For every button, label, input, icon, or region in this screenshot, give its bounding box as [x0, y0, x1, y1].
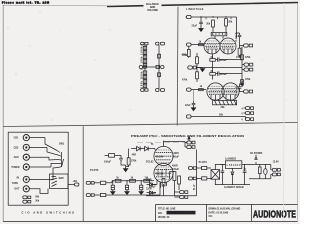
divider vertical linestage [176, 7, 179, 126]
svg-text:4: 4 [241, 108, 243, 111]
diode D-PSU1 [131, 146, 144, 150]
svg-text:61C3N: 61C3N [156, 172, 164, 175]
labels +400 450R [146, 152, 179, 171]
connector stack PWR2 [243, 112, 253, 115]
svg-text:22uF: 22uF [185, 104, 191, 107]
svg-text:470k: 470k [245, 78, 251, 81]
svg-text:4: 4 [241, 119, 243, 122]
tube V2a [207, 83, 224, 100]
wire 220uF B to rail [224, 73, 242, 75]
connector GND2 [23, 200, 31, 203]
connector F1a [188, 167, 201, 170]
svg-text:CK:: CK: [209, 215, 213, 218]
mid: jack GND-L [188, 66, 203, 69]
mid: resistor 3k B [210, 70, 216, 75]
mid: resistor 470k L1 [182, 53, 198, 68]
resistor 470k out A [236, 46, 242, 59]
wire 220uF A to rail [224, 59, 242, 61]
connector stack PWR3 [245, 118, 253, 121]
connector +B1 [73, 180, 79, 186]
svg-text:P1 RTX: P1 RTX [199, 161, 208, 164]
svg-text:0.47uF: 0.47uF [235, 32, 238, 42]
connector J3 bottom-left [141, 89, 148, 92]
resistor RV1e [143, 63, 146, 66]
rail: output jack OUT-M1 [242, 63, 253, 66]
tube V3b rectifier [154, 163, 173, 182]
branch 100uF 270k [104, 154, 126, 165]
border bottom [3, 221, 297, 223]
svg-text:100uF: 100uF [104, 161, 111, 164]
mid: capacitor 220uF A [216, 58, 227, 62]
svg-text:OUT: OUT [14, 187, 20, 190]
svg-text:22uF: 22uF [192, 25, 198, 28]
bottom jack IN-D [187, 115, 192, 118]
connector J1 top-left [141, 42, 148, 45]
svg-text:ISSUE: 03: ISSUE: 03 [158, 216, 170, 219]
text TITLE [158, 208, 196, 220]
svg-text:ECL82: ECL82 [146, 160, 154, 163]
box outline [8, 132, 68, 205]
capacitor F-C2 [243, 164, 247, 184]
ground A [199, 29, 203, 32]
svg-text:PREAMP PSU - SMOOTHING AND FIL: PREAMP PSU - SMOOTHING AND FILAMENT REGU… [131, 134, 244, 138]
fuse box F2b [202, 177, 211, 180]
resistor 10k PSU [144, 176, 150, 182]
switch SW1 contacts [57, 151, 64, 168]
tube type box ECC82 [211, 26, 227, 39]
mid wire across [197, 67, 242, 69]
svg-text:+B1: +B1 [73, 180, 78, 183]
svg-text:M8/M1LINE: M8/M1LINE [168, 212, 181, 215]
svg-text:100k 1: 100k 1 [140, 43, 143, 54]
svg-text:TITLE: M1 LINE: TITLE: M1 LINE [158, 208, 176, 211]
rail: output jack OUT-M2 [242, 68, 253, 71]
capacitor C-PSU3 [139, 180, 143, 194]
svg-text:110R: 110R [146, 179, 152, 182]
border right [297, 3, 299, 222]
svg-text:100k 1: 100k 1 [140, 53, 143, 64]
svg-text:2u: 2u [243, 167, 246, 170]
jack CD1 [14, 135, 45, 141]
middle junction dots [144, 66, 160, 68]
crease smudge [137, 141, 190, 143]
rail right vertical [241, 47, 243, 88]
svg-text:IN: IN [17, 176, 20, 179]
input jack IN-A [186, 15, 192, 18]
resistor 470k input A [182, 46, 191, 58]
input jack IN-B [187, 43, 205, 46]
svg-text:LINESTAGE: LINESTAGE [186, 8, 204, 11]
jack TAPE OUT [14, 186, 44, 194]
resistor RV1c [143, 55, 146, 59]
svg-text:1x1N5822: 1x1N5822 [225, 157, 237, 160]
rail: resistor 470k R1 [241, 55, 251, 60]
diode F-D2 under box [231, 168, 234, 184]
switch SW1 wires [45, 138, 58, 180]
resistor RV2a on right chain [158, 54, 161, 58]
diode D1 top [250, 152, 263, 165]
svg-text:470k: 470k [245, 56, 251, 59]
resistor 2k PSU [130, 176, 136, 182]
svg-text:CD2: CD2 [14, 146, 19, 149]
svg-text:110R: 110R [146, 188, 152, 191]
B+ up arrow PSU [188, 136, 190, 141]
connector P1a [86, 181, 100, 184]
capacitor C-PSU2 [125, 180, 129, 194]
connector stack PWR1 [243, 107, 253, 110]
mid: capacitor 220uF B [216, 72, 227, 76]
svg-text:2k: 2k [131, 176, 134, 179]
resistor RV2b on right chain [158, 73, 161, 77]
pot label SW 20k [35, 196, 40, 203]
fuse box a [100, 181, 112, 185]
border top-left faint [3, 4, 108, 7]
svg-text:Please mark tol. VR. ±2%: Please mark tol. VR. ±2% [2, 1, 50, 4]
svg-text:D1 BYW80: D1 BYW80 [250, 152, 263, 155]
wire left chain [145, 45, 159, 89]
svg-text:TUNER: TUNER [11, 166, 20, 169]
svg-text:100uF: 100uF [172, 156, 179, 159]
svg-text:T4: T4 [151, 143, 154, 146]
scan noise dots [8, 12, 287, 196]
resistor F-R1 [259, 164, 262, 178]
svg-text:470k: 470k [236, 56, 242, 59]
output jack OUT-B [244, 90, 253, 93]
svg-text:40R: 40R [132, 154, 137, 157]
capacitor 0.47uF out B [235, 84, 243, 96]
jack TAPE IN [17, 176, 53, 182]
svg-text:AUDIONOTE: AUDIONOTE [253, 210, 296, 221]
connector P1b [86, 194, 100, 197]
mid: ground symbol [200, 69, 204, 72]
connector GND1 [23, 196, 31, 199]
svg-text:20k: 20k [221, 106, 226, 109]
svg-text:B +V: B +V [242, 80, 245, 86]
wire tube top to connectors [164, 141, 186, 147]
middle wire [146, 66, 157, 68]
svg-text:CD1: CD1 [14, 137, 19, 140]
diode D-PSU2 [145, 143, 155, 151]
wire 3k B to bus [212, 68, 214, 80]
connector PSU-out2 [174, 196, 187, 199]
tube V1b [220, 38, 236, 54]
svg-text:100uF: 100uF [172, 168, 179, 171]
title BALANCE AND VOLUME [144, 2, 162, 12]
connector OUT12b [271, 173, 281, 176]
output jack OUT-A [244, 44, 253, 47]
tube V2b [222, 83, 239, 100]
svg-text:ECC82: ECC82 [212, 33, 227, 36]
svg-text:C/O AND SWITCHING: C/O AND SWITCHING [22, 211, 75, 215]
svg-text:1k: 1k [200, 85, 203, 88]
border top-right dark [107, 3, 298, 7]
svg-text:DATE: 01 06 1995: DATE: 01 06 1995 [209, 211, 229, 214]
svg-text:20k: 20k [219, 113, 224, 116]
svg-text:TAPE: TAPE [12, 182, 19, 185]
svg-text:20k: 20k [206, 23, 211, 26]
svg-text:20k: 20k [228, 21, 233, 24]
capacitor 0.47uF out A [235, 32, 243, 46]
pin numbers 4 [241, 108, 243, 122]
svg-text:61C3N: 61C3N [156, 155, 164, 158]
text DRWN [209, 208, 241, 219]
svg-text:470k: 470k [182, 54, 188, 57]
capacitor F-C3 [264, 164, 267, 178]
bottom bus wire [191, 117, 245, 120]
jack CD2 [14, 144, 47, 150]
connector J2 top-right [156, 42, 165, 45]
regulator L7812CV box [220, 161, 256, 169]
divider horizontal mid [3, 123, 297, 127]
svg-text:270k: 270k [131, 159, 137, 162]
svg-text:470k: 470k [182, 79, 188, 82]
middle row: connector J5 left [139, 66, 146, 69]
jack AUX [14, 154, 49, 160]
connector B2b [185, 146, 195, 149]
heater box lower [213, 100, 237, 109]
svg-text:AUX: AUX [14, 156, 19, 159]
resistor RV1h [143, 80, 146, 84]
svg-text:100k 1: 100k 1 [140, 77, 143, 88]
rail: resistor 470k R2 [241, 78, 251, 84]
svg-text:SW2: SW2 [59, 177, 65, 180]
fuse box F2a [202, 166, 211, 169]
value labels left chain top [140, 43, 143, 64]
svg-text:SW: SW [35, 196, 40, 199]
resistor 270k [126, 149, 137, 167]
svg-text:20k: 20k [35, 199, 40, 202]
junction dots top bus [200, 16, 226, 17]
wire tube1 to 3k A [212, 54, 214, 68]
svg-text:P1 RTX: P1 RTX [90, 169, 99, 172]
svg-text:VOLUME: VOLUME [147, 8, 158, 12]
svg-text:L7812CV: L7812CV [227, 164, 241, 167]
B wire top [112, 180, 154, 182]
switch SW2 box [50, 174, 69, 189]
connector J4 bottom-right [156, 89, 165, 92]
resistor 20k A1 [206, 20, 214, 27]
svg-text:12.6V: 12.6V [273, 161, 280, 164]
tube underside network [146, 150, 197, 196]
capacitor 22uF input A [199, 17, 203, 29]
fuse box b [100, 183, 160, 197]
middle row: resistor box right [156, 65, 160, 68]
svg-text:NO:: NO: [158, 212, 163, 215]
svg-text:4: 4 [241, 113, 243, 116]
mid: resistor 470k L2 [182, 68, 198, 83]
titleblock verticals [156, 205, 252, 222]
resistor RV1d [143, 60, 146, 64]
svg-text:0.47uF: 0.47uF [235, 86, 238, 96]
resistor RV1i [143, 84, 146, 88]
divider vertical bottom [82, 126, 84, 221]
value labels left chain bottom [140, 68, 143, 88]
resistor RV1f [143, 71, 146, 75]
svg-text:4x1N4007 2200uF: 4x1N4007 2200uF [224, 186, 244, 189]
fold line faint [283, 3, 286, 221]
connector PSU-out1 [174, 191, 187, 194]
ground B [191, 108, 195, 111]
svg-text:SW1: SW1 [59, 143, 65, 146]
resistor 1k PSU [115, 176, 121, 182]
ground PSU mid [123, 167, 127, 172]
middle row: connector J6 right [161, 66, 164, 69]
capacitor C-PSU1 [111, 180, 115, 194]
connector OUT12a [271, 168, 281, 171]
B+ arrow [241, 80, 245, 87]
resistor 20k A2 [225, 19, 233, 26]
capacitor 22uF B [185, 90, 195, 108]
bridge rectifier [211, 164, 250, 184]
labels 100uF right [149, 185, 156, 195]
svg-text:B +V: B +V [193, 184, 196, 190]
tube V3a rectifier [154, 146, 173, 165]
resistor RV1g [143, 75, 146, 79]
mid: resistor 3k A [210, 56, 216, 61]
wire to 12.6V out [249, 164, 271, 178]
border left [2, 5, 4, 221]
wire top bus [191, 17, 236, 38]
capacitor F-C1 [221, 164, 225, 184]
input jack IN-C [187, 88, 207, 91]
tube V1a [204, 38, 220, 54]
svg-text:100k 1: 100k 1 [140, 68, 143, 79]
jack TUNER [11, 164, 51, 170]
resistor RV1b [143, 51, 146, 55]
resistor 1k grid A [199, 41, 204, 46]
connector B2a [185, 141, 195, 144]
connector F1b [188, 177, 201, 180]
resistor 1k grid B [199, 85, 204, 91]
svg-text:1k: 1k [116, 176, 119, 179]
svg-text:DRWN:CLAUS MAL.GRAND: DRWN:CLAUS MAL.GRAND [209, 208, 241, 211]
titleblock top line [156, 204, 298, 206]
resistor RV1a [143, 46, 146, 50]
wire to +B1 [44, 185, 75, 194]
